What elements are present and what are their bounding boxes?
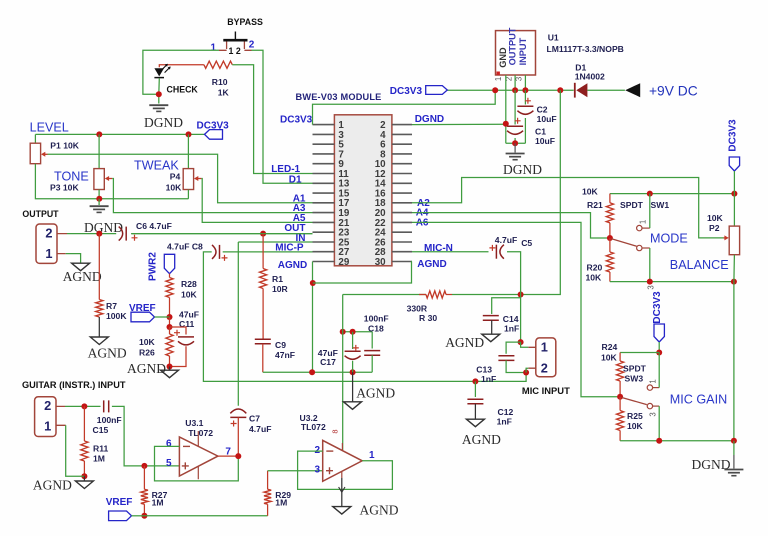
svg-text:MIC GAIN: MIC GAIN xyxy=(670,393,727,407)
ground AGND above U3.2 xyxy=(344,402,362,410)
op-amp U3.2 pin4 arrow xyxy=(339,487,345,492)
wire U3.2 pin4 stem xyxy=(341,478,343,506)
svg-text:1 2: 1 2 xyxy=(229,46,241,56)
svg-text:1M: 1M xyxy=(152,498,164,508)
wire C13 branch xyxy=(506,342,520,354)
wire R30 row right xyxy=(452,294,521,296)
svg-text:R11: R11 xyxy=(93,444,109,454)
wire P4 bottom xyxy=(187,190,189,199)
svg-text:AGND: AGND xyxy=(33,478,72,493)
wire C9 bottom lead xyxy=(262,344,264,372)
wire AGND stem to wire1 xyxy=(352,372,354,402)
svg-text:SW1: SW1 xyxy=(651,200,670,210)
wire SW3 contact1 up xyxy=(658,353,660,388)
resistor R7 xyxy=(96,300,103,318)
junction rail/INPUT/C2 xyxy=(522,87,528,93)
svg-text:1: 1 xyxy=(44,419,51,434)
wire R11 top lead xyxy=(83,406,85,441)
svg-text:1nF: 1nF xyxy=(497,417,512,427)
svg-text:2: 2 xyxy=(249,40,255,51)
resistor R11 xyxy=(81,441,88,461)
wire SW3 contact3 down xyxy=(658,406,660,441)
junction LEVEL/P4 xyxy=(186,131,192,137)
junction bottom rail/DGND xyxy=(731,438,737,444)
svg-text:AGND: AGND xyxy=(360,503,399,518)
wire VREF flag to node xyxy=(155,316,170,318)
svg-text:P2: P2 xyxy=(709,223,720,233)
svg-text:10K: 10K xyxy=(166,183,183,193)
wire U3.2 feedback xyxy=(298,451,393,489)
svg-text:R28: R28 xyxy=(181,279,197,289)
svg-text:10R: 10R xyxy=(272,284,289,294)
svg-text:C9: C9 xyxy=(275,340,286,350)
svg-text:2: 2 xyxy=(44,398,51,413)
wire jack pin1 down xyxy=(66,425,85,476)
ground AGND below U3.2 xyxy=(333,507,351,514)
wire R7 bottom lead xyxy=(98,317,100,337)
svg-text:AGND: AGND xyxy=(356,386,395,401)
svg-text:100nF: 100nF xyxy=(364,314,389,324)
svg-text:330R: 330R xyxy=(407,304,428,314)
wire R21 bottom lead xyxy=(609,223,611,238)
wire P3 bottom xyxy=(98,190,100,199)
wire C2 bottom lead xyxy=(524,118,526,143)
capacitor C1 xyxy=(507,125,523,127)
junction DC3V3/P2 top xyxy=(731,191,737,197)
wire 3V3 rail xyxy=(447,89,573,91)
svg-text:1: 1 xyxy=(649,379,658,383)
wire SW1 top rail xyxy=(610,193,735,195)
svg-text:1: 1 xyxy=(211,43,217,54)
junction SW1 top rail xyxy=(647,191,653,197)
wire U1 OUTPUT pin down xyxy=(514,75,516,90)
net VREF flag 2 xyxy=(109,511,132,521)
svg-text:R25: R25 xyxy=(627,411,643,421)
op-amp U3.2 body xyxy=(323,440,363,481)
wire DGND stem bottom right xyxy=(733,441,735,455)
wire R20 top lead xyxy=(609,238,611,252)
wire R1 top lead xyxy=(262,234,264,269)
wire DGND stem under pots xyxy=(98,199,100,205)
svg-text:U1: U1 xyxy=(548,32,559,42)
capacitor C5 xyxy=(495,245,497,259)
svg-text:4.7uF: 4.7uF xyxy=(249,424,271,434)
wire IN riser down to C7 xyxy=(237,242,239,406)
capacitor C13 xyxy=(498,356,514,361)
junction rail/module wire xyxy=(492,87,498,93)
wire C11 bottom xyxy=(170,346,187,366)
svg-text:P1 10K: P1 10K xyxy=(50,141,79,151)
ground DGND bottom right xyxy=(724,469,743,471)
wire R24 bottom lead xyxy=(619,381,621,397)
wire R30 right stub xyxy=(446,294,452,296)
svg-text:6: 6 xyxy=(166,438,172,449)
svg-text:CHECK: CHECK xyxy=(167,85,199,95)
wire P3 top stem xyxy=(98,134,100,168)
resistor R30 xyxy=(426,291,446,298)
svg-text:DGND: DGND xyxy=(415,114,444,125)
svg-text:C14: C14 xyxy=(503,314,519,324)
svg-text:1: 1 xyxy=(45,246,52,261)
svg-text:BALANCE: BALANCE xyxy=(670,258,729,272)
junction bottom rail/SW1c3 xyxy=(647,279,653,285)
svg-text:C1: C1 xyxy=(535,127,546,137)
svg-text:1: 1 xyxy=(369,450,375,461)
svg-text:AGND: AGND xyxy=(63,269,102,284)
switch SW3 contact 1 xyxy=(647,385,652,390)
svg-text:1nF: 1nF xyxy=(504,324,519,334)
wire AGND stem xyxy=(83,476,85,481)
svg-text:R10: R10 xyxy=(212,77,228,87)
wire DC3V3 to P2 top xyxy=(733,171,735,226)
potentiometer P4 xyxy=(183,169,193,190)
op-amp U3.1 body xyxy=(179,437,218,476)
wire C7 bottom to U3.1 out xyxy=(237,417,239,456)
svg-text:BWE-V03 MODULE: BWE-V03 MODULE xyxy=(296,92,382,102)
svg-text:TL072: TL072 xyxy=(301,422,326,432)
wire R7 top lead xyxy=(98,234,100,300)
svg-text:DC3V3: DC3V3 xyxy=(280,115,313,126)
switch SW1 wiper xyxy=(612,239,637,246)
svg-text:1nF: 1nF xyxy=(481,374,496,384)
junction bottom rail/SW3 xyxy=(656,438,662,444)
junction R11/pin1/AGND xyxy=(81,473,87,479)
wire C2 top lead xyxy=(524,90,526,104)
junction C1 bottom xyxy=(512,140,518,146)
svg-text:DGND: DGND xyxy=(503,162,542,177)
svg-text:R24: R24 xyxy=(602,342,618,352)
resistor R1 xyxy=(260,269,267,289)
wire R25 bottom lead xyxy=(619,431,621,441)
ground DGND under regulator xyxy=(506,153,525,155)
svg-text:U3.1: U3.1 xyxy=(185,418,203,428)
wire SW1 contact1 up xyxy=(649,194,651,229)
wire AGND net horizontal xyxy=(263,371,372,373)
wire SW3 bottom rail xyxy=(620,440,734,442)
junction R30 leg/node-T xyxy=(340,329,346,335)
ground DGND under LED xyxy=(149,104,168,106)
wire SW1 bottom rail xyxy=(610,281,734,283)
svg-text:1: 1 xyxy=(639,220,648,224)
svg-text:P4: P4 xyxy=(170,172,181,182)
wire R26 leads xyxy=(169,327,171,334)
svg-text:DC3V3: DC3V3 xyxy=(390,86,423,97)
wire P1 bottom to bottom rail xyxy=(35,164,188,199)
wire MIC-N row xyxy=(412,251,489,253)
svg-text:C7: C7 xyxy=(249,414,260,424)
svg-text:+9V DC: +9V DC xyxy=(649,84,698,99)
svg-text:AGND: AGND xyxy=(88,346,127,361)
wire C14 branch xyxy=(492,298,521,314)
svg-text:LM1117T-3.3/NOPB: LM1117T-3.3/NOPB xyxy=(547,44,624,54)
capacitor C15 xyxy=(104,400,109,412)
resistor R27 xyxy=(141,489,148,504)
svg-text:47nF: 47nF xyxy=(275,350,295,360)
junction DC3V3/R24/SW3 xyxy=(656,350,662,356)
svg-text:C2: C2 xyxy=(537,105,548,115)
wire C13 bottom xyxy=(506,360,526,372)
svg-text:D1: D1 xyxy=(289,174,302,185)
svg-text:AGND: AGND xyxy=(127,361,166,376)
wire R26 bottom xyxy=(169,356,171,367)
junction guitar2/C15/R11 xyxy=(81,403,87,409)
wire D1 anode to +9V xyxy=(587,89,625,91)
junction R26/C11/AGND xyxy=(167,364,173,370)
wire A2 to P2 wiper xyxy=(412,178,724,238)
resistor R25 xyxy=(617,411,624,431)
junction bottom rail/P2 xyxy=(731,279,737,285)
svg-text:VREF: VREF xyxy=(106,497,133,508)
wire VREF bus xyxy=(144,515,267,517)
wire C11 branch xyxy=(170,327,187,335)
junction C17 bottom xyxy=(350,369,356,375)
svg-text:1M: 1M xyxy=(93,454,105,464)
svg-text:3: 3 xyxy=(649,412,658,416)
wire R1 to C9 xyxy=(262,289,264,340)
wire C1 bottom lead xyxy=(514,138,516,143)
wire DGND stem dark xyxy=(733,455,735,469)
connector J-MIC body xyxy=(536,338,556,377)
wire AGND pin29 riser xyxy=(312,262,314,373)
wire AGND pin30 return xyxy=(313,262,412,284)
resistor R26 xyxy=(166,334,173,356)
ground AGND under R26 xyxy=(161,370,179,378)
wire C6 to OUT net xyxy=(131,233,312,235)
svg-text:OUTPUT: OUTPUT xyxy=(507,27,517,65)
switch SW1 contact 3 xyxy=(637,245,642,250)
svg-text:LEVEL: LEVEL xyxy=(30,121,69,135)
svg-text:DGND: DGND xyxy=(84,220,123,235)
svg-text:10K: 10K xyxy=(707,213,724,223)
svg-text:DGND: DGND xyxy=(144,115,183,130)
wire R21 top lead xyxy=(609,194,611,203)
svg-text:C6 4.7uF: C6 4.7uF xyxy=(136,221,172,231)
svg-text:TL072: TL072 xyxy=(188,428,213,438)
capacitor C14 xyxy=(483,316,499,321)
svg-text:1: 1 xyxy=(541,339,548,354)
wire P4 top stem xyxy=(187,134,189,168)
capacitor C9 xyxy=(255,339,271,344)
svg-text:C5: C5 xyxy=(521,238,532,248)
wire right edge riser xyxy=(733,282,735,441)
wire A4 to SW1 common xyxy=(412,213,610,238)
svg-text:10K: 10K xyxy=(627,421,644,431)
wire LED cathode down xyxy=(158,78,161,103)
wire R10 right to module LED-1 pin11 xyxy=(232,65,312,174)
junction P3 bottom rail xyxy=(96,196,102,202)
potentiometer P1 xyxy=(30,143,40,164)
junction C11 branch xyxy=(167,324,173,330)
ground AGND at guitar xyxy=(75,481,93,489)
svg-text:VREF: VREF xyxy=(129,303,156,314)
svg-text:AGND: AGND xyxy=(462,432,501,447)
wire R30 row left xyxy=(343,294,426,296)
connector J-OUTPUT xyxy=(36,224,57,263)
wire R29 top lead xyxy=(267,471,269,490)
svg-text:10K: 10K xyxy=(181,290,198,300)
svg-text:R7: R7 xyxy=(106,301,117,311)
wire MIC-P row right of C8 xyxy=(223,251,313,253)
svg-text:2: 2 xyxy=(541,360,548,375)
wire R30 leg / U3.2 power line xyxy=(342,295,344,451)
wire C15 to pin5 node xyxy=(112,406,179,466)
svg-text:4.7uF: 4.7uF xyxy=(495,235,517,245)
wire module pin2 DGND xyxy=(412,123,506,126)
wire R20 bottom lead xyxy=(609,272,611,282)
svg-text:R21: R21 xyxy=(587,200,603,210)
svg-text:SPDT: SPDT xyxy=(620,200,644,210)
junction SW1 common xyxy=(607,235,613,241)
junction C17 top xyxy=(350,329,356,335)
wire C18 branch xyxy=(371,332,373,349)
wire mic pin2 xyxy=(526,368,528,372)
wire bypass left to LED junction xyxy=(143,50,219,94)
wire OUT row xyxy=(131,233,312,235)
svg-text:GUITAR (INSTR.) INPUT: GUITAR (INSTR.) INPUT xyxy=(22,380,126,390)
wire module pin1 DC3V3 xyxy=(313,90,496,124)
junction U3.1 out/C7/feedback xyxy=(235,453,241,459)
svg-text:5: 5 xyxy=(166,458,172,469)
svg-text:OUTPUT: OUTPUT xyxy=(22,209,59,219)
potentiometer P3 wiper xyxy=(106,178,112,180)
wire C5 to riser xyxy=(507,252,521,342)
capacitor C2 xyxy=(517,105,533,107)
resistor R20 xyxy=(606,252,613,272)
potentiometer P3 xyxy=(94,169,104,190)
wire C12 bottom xyxy=(474,404,476,419)
capacitor C6 xyxy=(119,227,123,241)
junction C12/bus xyxy=(472,378,478,384)
svg-text:SW3: SW3 xyxy=(625,373,644,383)
svg-text:DC3V3: DC3V3 xyxy=(197,121,230,132)
resistor R10 xyxy=(204,61,232,68)
svg-text:1M: 1M xyxy=(275,498,287,508)
svg-text:DGND: DGND xyxy=(692,457,731,472)
potentiometer P2 wiper xyxy=(724,237,728,239)
svg-text:3: 3 xyxy=(515,77,524,81)
svg-text:BYPASS: BYPASS xyxy=(227,17,263,27)
wire C18 bottom lead xyxy=(371,355,373,372)
junction jack2/C6/R7 xyxy=(96,231,102,237)
junction LED/bypass xyxy=(156,91,162,97)
module U-BWE-V03 body xyxy=(334,115,392,266)
net DC3V3 vertical flag mid xyxy=(654,324,664,342)
junction VREF bus/R27 xyxy=(141,513,147,519)
svg-text:AGND: AGND xyxy=(278,260,307,271)
svg-text:MIC INPUT: MIC INPUT xyxy=(522,385,570,396)
svg-text:100nF: 100nF xyxy=(97,415,122,425)
wire A6 to SW3 common xyxy=(412,222,620,396)
wire U1 GND pin down xyxy=(505,75,507,143)
svg-text:1: 1 xyxy=(494,77,503,81)
svg-text:10uF: 10uF xyxy=(537,114,557,124)
wire R27 top lead xyxy=(143,466,145,489)
wire U3.1 output xyxy=(218,455,238,457)
svg-text:SPDT: SPDT xyxy=(623,363,647,373)
svg-text:C18: C18 xyxy=(368,323,384,333)
junction R30/C5 riser xyxy=(518,292,524,298)
wire AGND stem xyxy=(169,367,171,371)
wire jack pin2 to C15 xyxy=(65,405,101,407)
svg-text:P3 10K: P3 10K xyxy=(50,183,79,193)
resistor R24 xyxy=(617,361,624,381)
svg-text:DC3V3: DC3V3 xyxy=(652,291,663,324)
junction SW3 common xyxy=(617,394,623,400)
net DC3V3 flag at rail xyxy=(426,86,448,95)
svg-text:8: 8 xyxy=(330,429,339,433)
net DC3V3 flag on LEVEL rail xyxy=(205,130,223,140)
svg-text:TONE: TONE xyxy=(54,170,89,184)
wire LEVEL rail xyxy=(35,133,204,135)
svg-text:2: 2 xyxy=(45,225,52,240)
wire P4 wiper to module A5 pin21 xyxy=(201,179,312,223)
potentiometer P2 xyxy=(729,226,739,255)
wire R27 bottom lead xyxy=(143,504,145,516)
junction LEVEL/P3 xyxy=(96,131,102,137)
wire VREF flag2 xyxy=(132,515,145,517)
svg-text:29: 29 xyxy=(338,257,349,268)
wire R10 left to LED anode xyxy=(159,65,204,68)
wire jack pin2 to C6 xyxy=(67,233,116,235)
svg-text:C15: C15 xyxy=(93,425,109,435)
wire DGND stem xyxy=(514,143,516,152)
wire R25 top lead xyxy=(619,397,621,411)
wire U1 INPUT pin down xyxy=(524,75,526,90)
ground DGND under P3 xyxy=(90,205,109,207)
capacitor C17 xyxy=(345,350,361,352)
capacitor C8 xyxy=(212,245,216,259)
svg-text:10uF: 10uF xyxy=(535,136,555,146)
svg-text:R 30: R 30 xyxy=(419,313,437,323)
wire P2 bottom xyxy=(733,255,736,282)
svg-text:AGND: AGND xyxy=(417,259,446,270)
svg-text:PWR2: PWR2 xyxy=(148,252,159,281)
junction wire1/x312 xyxy=(309,369,315,375)
svg-text:2: 2 xyxy=(314,445,320,456)
wire P3 wiper to module A3 pin19 xyxy=(112,179,312,213)
ground AGND under R7 xyxy=(90,337,108,345)
wire IN row xyxy=(238,241,312,243)
wire R30 left stub xyxy=(419,294,426,296)
svg-text:3: 3 xyxy=(647,285,656,289)
wire R28 to VREF node xyxy=(169,298,171,318)
wire R24 top lead xyxy=(619,353,621,362)
switch S1 pushbutton xyxy=(234,32,236,40)
svg-text:DC3V3: DC3V3 xyxy=(728,119,739,152)
svg-text:AGND: AGND xyxy=(445,335,484,350)
svg-text:R26: R26 xyxy=(139,348,155,358)
svg-text:4.7uF C8: 4.7uF C8 xyxy=(167,241,203,251)
svg-text:10K: 10K xyxy=(601,352,618,362)
ground AGND at output jack xyxy=(72,263,90,271)
capacitor C12 xyxy=(467,399,483,404)
svg-text:3: 3 xyxy=(314,464,320,475)
svg-text:1N4002: 1N4002 xyxy=(575,71,605,81)
switch SW3 contact 3 xyxy=(647,403,652,408)
connector +9V DC arrow xyxy=(625,83,640,97)
capacitor C18 xyxy=(364,351,380,356)
wire P1 wiper to module A1 pin17 xyxy=(48,154,313,203)
svg-text:100K: 100K xyxy=(106,311,127,321)
svg-text:C12: C12 xyxy=(498,407,514,417)
junction OUT/C6/R1 xyxy=(260,231,266,237)
potentiometer P4 wiper xyxy=(195,178,201,180)
power flag PWR2 xyxy=(164,254,174,273)
wire U3.1 feedback xyxy=(155,446,239,481)
ground AGND under C12 xyxy=(466,419,484,427)
connector J-GUITAR xyxy=(35,397,56,437)
wire rail riser to R30 junction xyxy=(521,90,561,294)
